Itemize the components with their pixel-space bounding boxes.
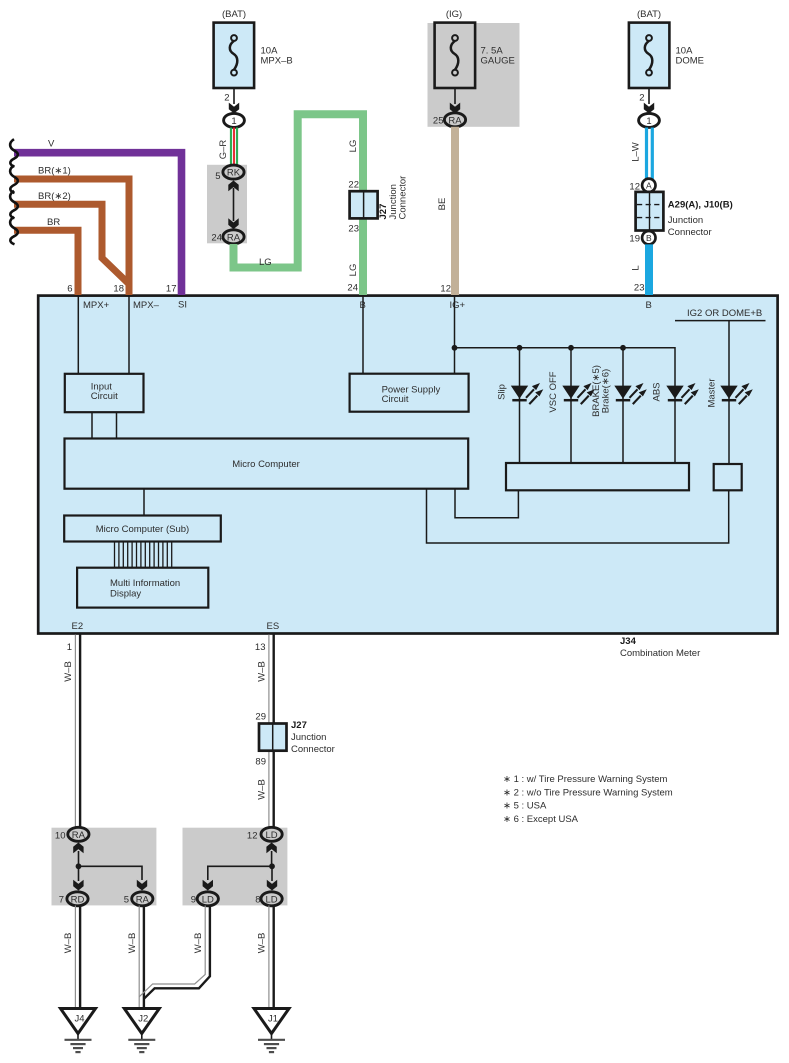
svg-text:(IG): (IG) [446,9,462,20]
svg-text:13: 13 [255,642,266,653]
wire LG (green) from RA to pin 24 [234,114,364,295]
master driver box (small) [714,464,742,490]
svg-text:J34: J34 [620,636,637,647]
micro computer (sub) box [64,516,221,542]
ground J4 [61,1009,96,1053]
svg-text:12: 12 [247,831,258,842]
connector oval LD (12) [261,827,282,841]
wire BR (brown) [14,230,78,295]
wire fuse DOME to connector [648,88,650,104]
svg-text:LD: LD [266,894,278,905]
svg-text:E2: E2 [72,621,84,632]
svg-text:MPX–B: MPX–B [261,56,293,67]
wire L-W (blue with white tracer) [645,128,648,180]
connector oval 1 (fuse MPX-B) [224,113,245,127]
ground J1 [254,1009,289,1053]
svg-text:24: 24 [347,283,358,294]
LED master [720,383,753,404]
wire BE (beige) [451,127,459,295]
svg-text:Micro Computer: Micro Computer [232,459,300,470]
connector oval RA (24) [223,230,244,244]
svg-text:∗ 6 : Except USA: ∗ 6 : Except USA [503,814,579,825]
LED wire master [728,321,730,464]
LED supply rail [455,348,676,386]
LED brake [614,383,647,404]
wire fuse1 to connector [233,88,235,104]
wire G-R (green with red tracer) [230,128,232,166]
arrow down toward RD (7) [73,880,83,891]
svg-text:B: B [646,300,652,311]
svg-text:12: 12 [440,284,451,295]
fuse MPX-B element [230,35,238,75]
svg-text:Micro Computer (Sub): Micro Computer (Sub) [96,524,189,535]
svg-text:DOME: DOME [676,56,705,67]
svg-text:29: 29 [255,712,266,723]
svg-text:24: 24 [211,233,222,244]
break squiggle wire V [10,139,18,167]
wire micro computer to master driver [427,489,729,543]
break squiggle wire BR(*2) [10,191,18,219]
svg-text:IG2 OR DOME+B: IG2 OR DOME+B [687,308,762,319]
svg-text:W–B: W–B [257,779,268,800]
svg-text:BR(∗1): BR(∗1) [38,166,71,177]
svg-text:1: 1 [231,116,236,127]
svg-text:19: 19 [629,234,640,245]
svg-text:B: B [646,233,652,243]
LED slip [511,383,544,404]
wire V (purple) [14,153,182,295]
svg-text:10: 10 [55,831,66,842]
arrow down toward RA (5) [137,880,147,891]
LED wire vsc off [570,348,572,463]
LED wire slip [519,348,521,463]
svg-text:2: 2 [639,93,644,104]
node dot left block [76,863,82,869]
link line node to LD8 [271,866,273,881]
fuse DOME element [645,35,653,75]
arrow down toward LD (9) [203,880,213,891]
LED wire brake [622,348,624,463]
node dot brake [620,345,626,351]
svg-text:2: 2 [224,93,229,104]
connector oval RA (5) [132,892,153,906]
svg-text:6: 6 [67,284,72,295]
power supply circuit box [350,374,469,412]
svg-text:23: 23 [634,283,645,294]
svg-text:(BAT): (BAT) [637,9,661,20]
micro computer box [65,439,469,489]
gray backdrop box of IG fuse block [428,23,520,127]
wire W-B LD8 to ground J1 [268,906,270,1009]
svg-text:1: 1 [646,116,651,127]
wires input circuit to micro computer [91,412,93,438]
connector oval RK [223,165,244,179]
svg-text:BE: BE [437,198,448,211]
svg-text:∗ 5 : USA: ∗ 5 : USA [503,801,547,812]
LED abs [666,383,699,404]
svg-text:Circuit: Circuit [382,394,409,405]
svg-text:Brake(∗6): Brake(∗6) [601,369,612,413]
svg-text:Master: Master [707,378,718,407]
wire fuse IG to connector [454,88,456,104]
wire W-B LD9 merging toward J2 [139,906,205,997]
node dot slip [517,345,523,351]
junction connector A29/J10 box [636,192,664,231]
bus hatch sub to display [115,542,172,568]
connector circle B [642,231,655,244]
svg-text:Circuit: Circuit [91,391,118,402]
svg-text:(BAT): (BAT) [222,9,246,20]
LED driver box (wide) [506,463,689,490]
svg-text:MPX+: MPX+ [83,300,110,311]
svg-text:1: 1 [67,642,72,653]
svg-text:RA: RA [227,232,241,243]
wire micro computer to sub [143,489,145,516]
svg-text:W–B: W–B [63,661,74,682]
break squiggle wire BR [10,217,18,245]
arrow down toward LD (8) [267,880,277,891]
svg-text:IG+: IG+ [450,300,466,311]
svg-text:ES: ES [267,621,280,632]
wire pin12(IG+) to power supply [454,296,456,374]
svg-text:Connector: Connector [397,176,408,220]
svg-text:J4: J4 [74,1014,84,1025]
link line LD12 to node [271,851,273,866]
svg-text:W–B: W–B [63,933,74,954]
svg-text:Display: Display [110,589,141,600]
node dot right block [269,863,275,869]
wire micro computer to led driver [455,489,518,518]
svg-text:LG: LG [348,140,359,153]
svg-text:J2: J2 [138,1014,148,1025]
link line RA10 to node [78,851,80,866]
wire L (blue) [645,244,653,295]
svg-text:5: 5 [124,895,129,906]
svg-text:Junction: Junction [291,732,326,743]
connector oval RA (10) [68,827,89,841]
svg-text:VSC OFF: VSC OFF [548,371,559,412]
input circuit box [65,374,144,412]
connector arrow into oval 1 (DOME) [644,103,654,114]
svg-text:W–B: W–B [257,661,268,682]
svg-text:RD: RD [71,894,85,905]
svg-text:22: 22 [348,180,359,191]
gray backdrop box of lower-right relay block [183,828,288,906]
fuse DOME box [629,23,670,88]
svg-text:J27: J27 [291,720,307,731]
svg-text:V: V [48,139,55,150]
wire pin6 to input circuit [77,296,79,374]
fuse MPX-B box [214,23,255,88]
svg-text:LG: LG [348,264,359,277]
svg-text:G–R: G–R [218,140,229,160]
svg-text:W–B: W–B [193,933,204,954]
svg-text:∗ 2 : w/o Tire Pressure Warnin: ∗ 2 : w/o Tire Pressure Warning System [503,787,673,798]
svg-text:L: L [631,265,642,270]
node dot vsc [568,345,574,351]
connector arrow into oval 1 [229,103,239,114]
wire BR(*1) (brown) [14,179,129,295]
wire pin24(B) to power supply [362,296,364,374]
break squiggle wire BR(*1) [10,166,18,194]
connector circle A [642,179,655,192]
junction connector J27 (lower) box [259,724,287,751]
link line node to RD7 [78,866,80,881]
arrow up toward RA (10) [73,843,83,854]
svg-text:9: 9 [191,895,196,906]
arrow up toward RK [228,181,238,192]
svg-text:Multi Information: Multi Information [110,578,180,589]
svg-text:A29(A), J10(B): A29(A), J10(B) [668,200,733,211]
combination meter box J34 [38,296,777,634]
svg-text:RK: RK [227,168,241,179]
svg-text:L–W: L–W [631,142,642,162]
svg-text:25: 25 [433,116,444,127]
wire pin18 to input circuit [128,296,130,374]
wire W-B from E2 [74,635,76,828]
connector oval RD (7) [67,892,88,906]
svg-text:Connector: Connector [291,744,335,755]
svg-text:GAUGE: GAUGE [481,56,515,67]
svg-text:RA: RA [448,115,462,126]
connector oval 1 (DOME) [639,113,660,127]
svg-text:LG: LG [259,257,272,268]
svg-text:Slip: Slip [497,384,508,400]
svg-text:BR: BR [47,217,60,228]
wire W-B from ES [268,635,270,828]
junction connector J27 (upper) box [350,191,378,218]
link left block node to RA5 branch [79,866,143,880]
net IG2 OR DOME+B bus line [675,320,766,322]
node junction dot on IG+ [452,345,458,351]
fuse GAUGE element [451,35,459,75]
svg-text:23: 23 [348,224,359,235]
LED vsc off [562,383,595,404]
connector arrow into RA (25) [450,103,460,114]
wire W-B RD7 to ground J4 [74,906,76,1009]
wire W-B RA5 to ground J2 [138,906,140,1009]
svg-text:7: 7 [59,895,64,906]
svg-text:MPX–: MPX– [133,300,160,311]
connector oval LD (8) [261,892,282,906]
svg-text:Combination Meter: Combination Meter [620,648,700,659]
svg-text:5: 5 [215,171,220,182]
svg-text:∗ 1 : w/ Tire Pressure Warning: ∗ 1 : w/ Tire Pressure Warning System [503,774,667,785]
svg-text:W–B: W–B [257,933,268,954]
svg-text:LD: LD [266,830,278,841]
arrow down toward RA [228,218,238,229]
svg-text:Connector: Connector [668,227,712,238]
gray backdrop box of RK/RA connector block [207,165,247,244]
svg-text:LD: LD [202,894,214,905]
svg-text:ABS: ABS [652,382,663,401]
svg-text:W–B: W–B [127,933,138,954]
svg-text:BR(∗2): BR(∗2) [38,191,71,202]
multi information display box [77,568,208,608]
svg-text:18: 18 [113,284,124,295]
connector oval LD (9) [197,892,218,906]
svg-text:SI: SI [178,300,187,311]
link right block node to LD9 branch [208,866,272,880]
arrow up toward LD (12) [266,843,276,854]
svg-text:A: A [646,181,652,191]
svg-text:89: 89 [255,757,266,768]
svg-text:17: 17 [166,284,177,295]
gray backdrop box of lower-left relay block [52,828,157,906]
wire BR(*2) (brown, merges into BR(*1)) [14,204,130,284]
ground J2 [124,1009,159,1053]
connector oval RA (25) [444,113,465,127]
LED wire abs [674,386,676,463]
svg-text:RA: RA [136,894,150,905]
link line RK to RA [233,188,235,221]
svg-text:RA: RA [72,830,86,841]
svg-text:J1: J1 [268,1014,278,1025]
svg-text:Junction: Junction [668,215,703,226]
fuse GAUGE box [435,23,476,88]
